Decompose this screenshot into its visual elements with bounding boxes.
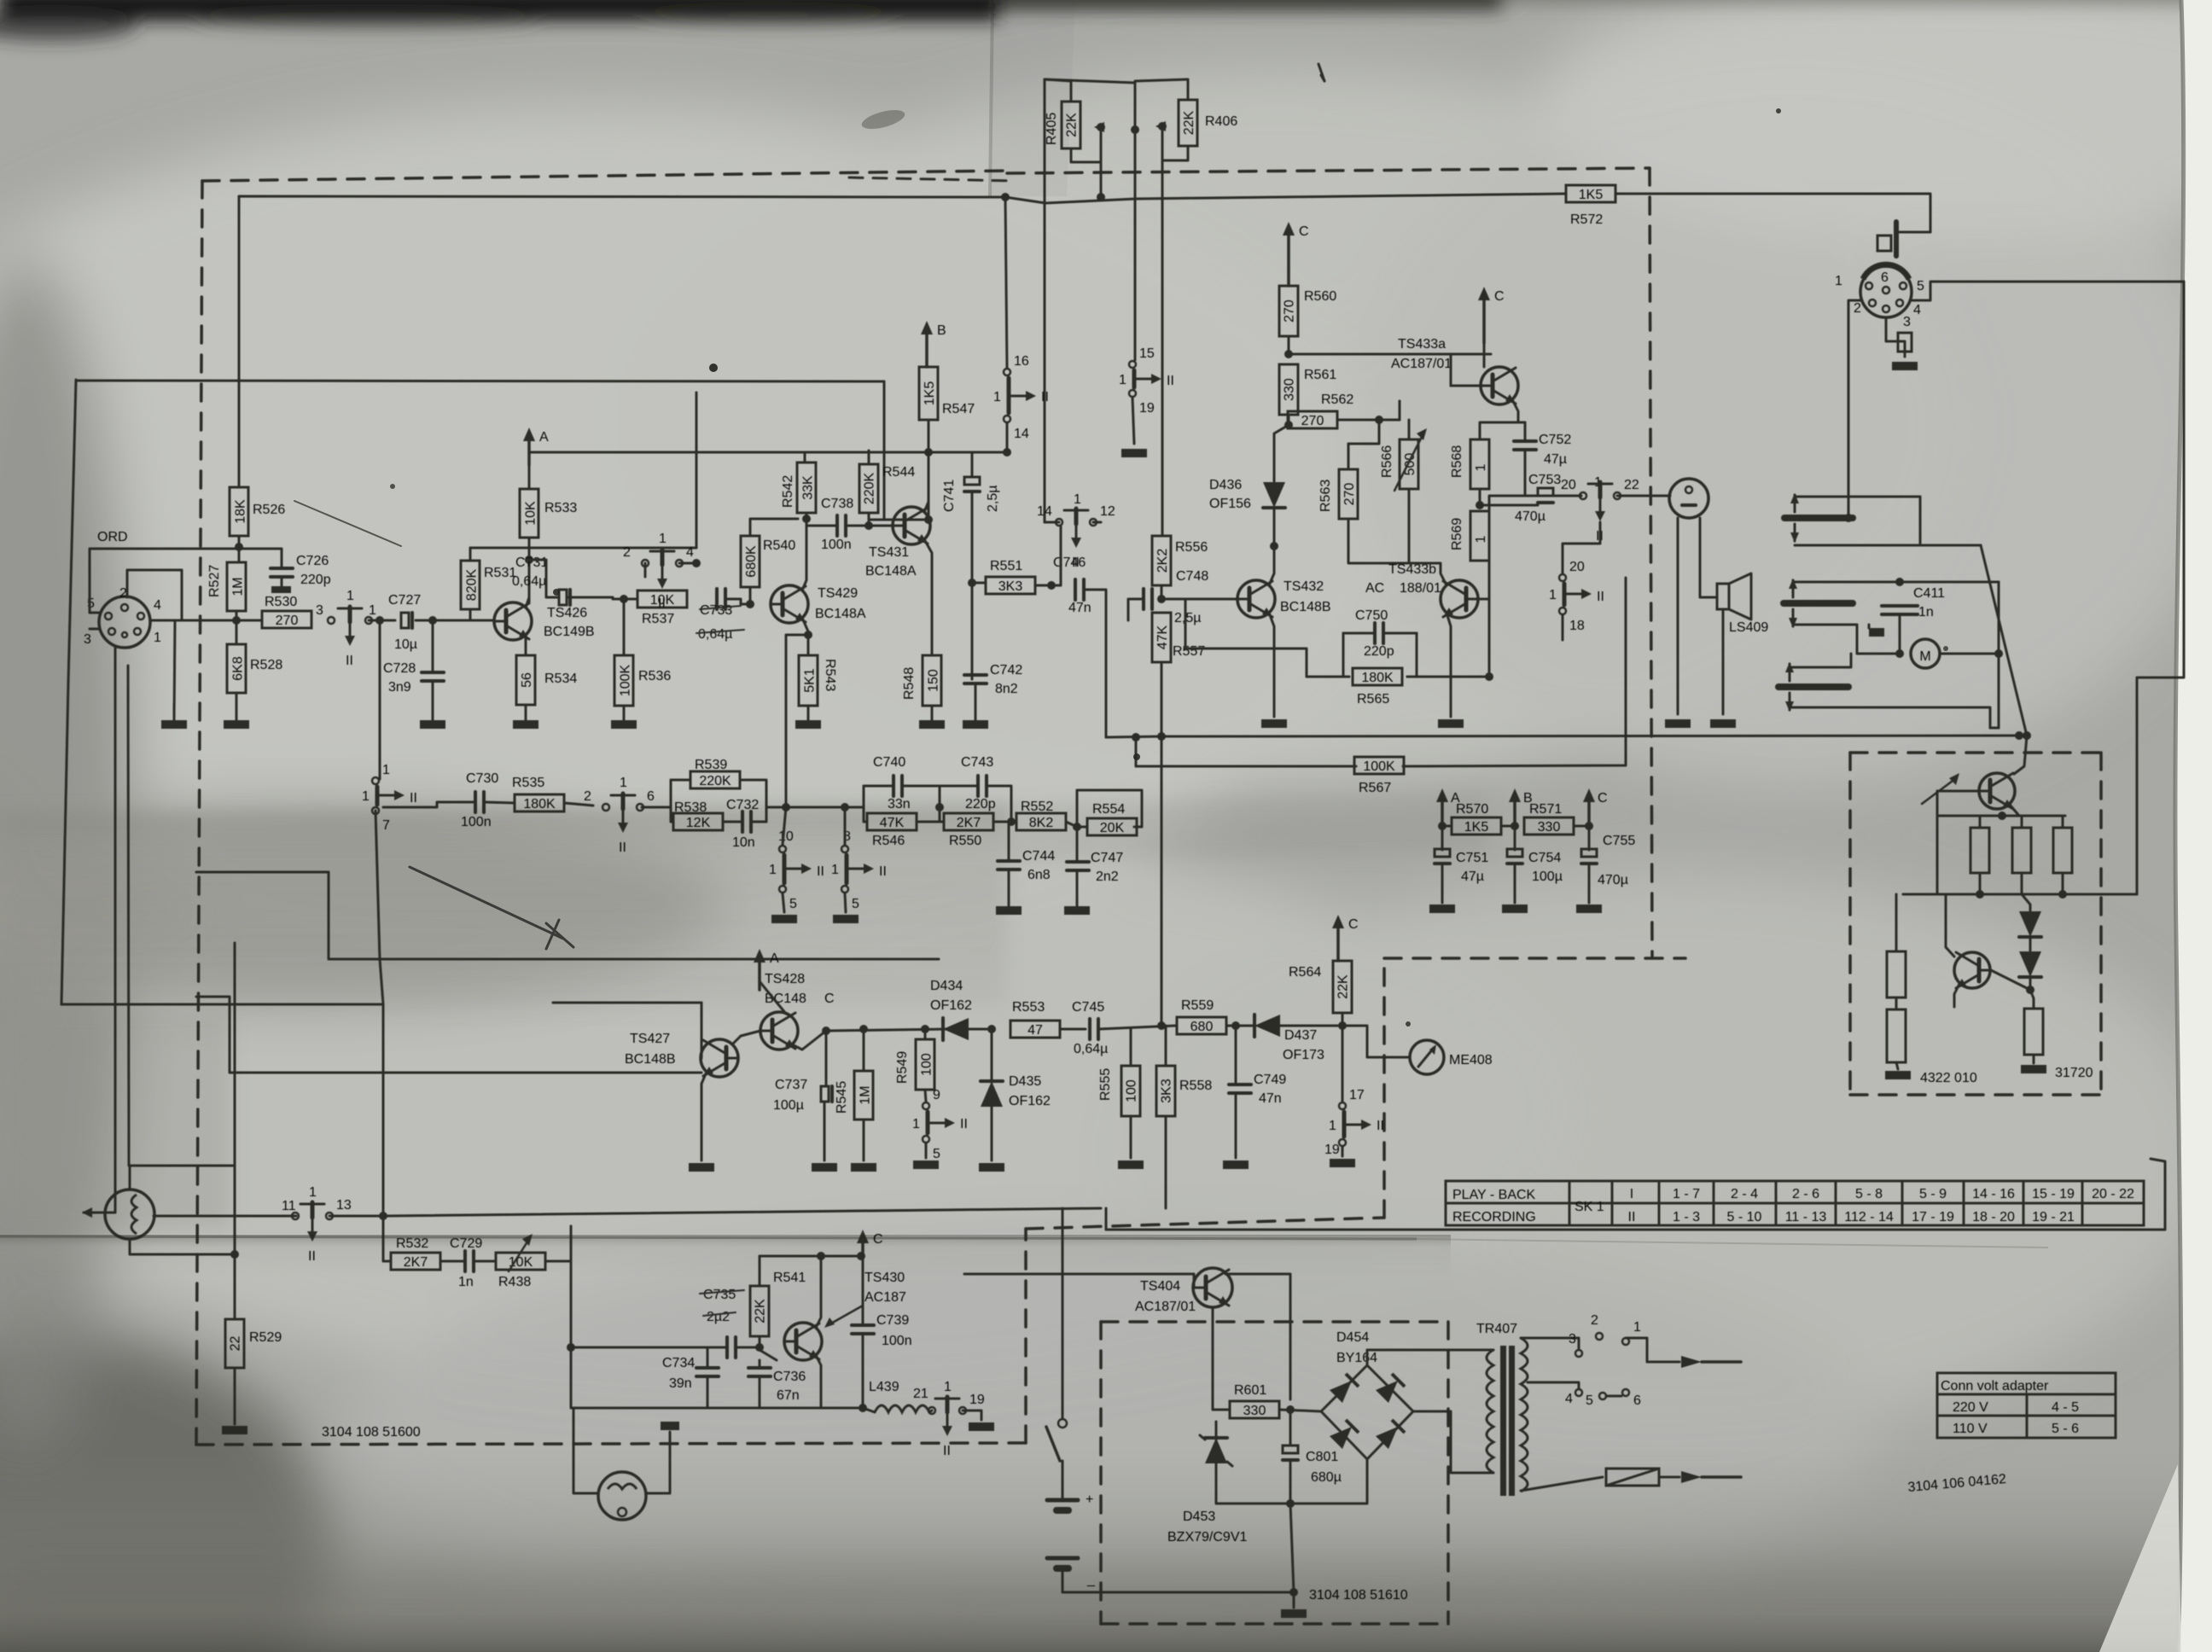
resistor R544	[859, 464, 878, 513]
svg-text:1n: 1n	[458, 1275, 474, 1289]
handwritten mark top	[1318, 64, 1324, 81]
supply arrow A rail	[1441, 799, 1444, 823]
svg-text:TS426: TS426	[547, 606, 587, 620]
resistor R561	[1279, 364, 1298, 415]
svg-text:1n: 1n	[1918, 605, 1934, 619]
svg-text:C745: C745	[1072, 1000, 1104, 1015]
wire bridge top to TR	[1367, 1350, 1485, 1365]
resistor R547	[919, 367, 938, 420]
svg-text:11: 11	[282, 1199, 296, 1213]
svg-text:470µ: 470µ	[1515, 509, 1545, 524]
transistor TS429	[771, 585, 808, 623]
switch contact 17-1-19b	[1339, 1102, 1346, 1109]
wire C739	[862, 1256, 864, 1325]
svg-text:AC187/01: AC187/01	[1391, 357, 1452, 371]
svg-text:6: 6	[1633, 1393, 1641, 1408]
wire R536 ground	[623, 706, 626, 720]
wire TS433a base	[1451, 385, 1481, 387]
ground under sw5	[913, 1160, 939, 1169]
svg-text:TS427: TS427	[630, 1032, 670, 1046]
wire TS429 emitter to mix	[786, 635, 808, 807]
capacitor C755	[1581, 849, 1597, 857]
wire R558 top	[1165, 1026, 1167, 1066]
svg-text:C743: C743	[961, 755, 993, 770]
svg-text:820K: 820K	[465, 568, 480, 601]
wire R406 loop	[1135, 79, 1188, 100]
wire osc in from bus	[571, 1347, 701, 1349]
node top bus junction	[1001, 193, 1010, 201]
wire C747	[1076, 827, 1079, 862]
svg-text:R563: R563	[1318, 480, 1333, 512]
svg-text:R570: R570	[1456, 802, 1488, 817]
capacitor C744	[998, 859, 1020, 863]
svg-text:14 - 16: 14 - 16	[1972, 1187, 2015, 1201]
svg-text:47K: 47K	[1155, 625, 1170, 649]
svg-text:C747: C747	[1091, 851, 1123, 865]
svg-text:II: II	[1628, 1210, 1636, 1224]
svg-text:3: 3	[84, 632, 91, 647]
svg-text:2K7: 2K7	[957, 816, 981, 830]
resistor R570	[1452, 817, 1501, 835]
svg-text:R557: R557	[1173, 644, 1205, 659]
wire osc bottom bus	[707, 1407, 863, 1410]
svg-text:BC148A: BC148A	[865, 564, 917, 579]
wire R564 bottom	[1342, 1013, 1344, 1026]
resistor R564	[1333, 961, 1352, 1013]
wire res stubs	[1979, 816, 1982, 828]
resistor R543	[799, 655, 818, 706]
svg-text:47µ: 47µ	[1461, 870, 1484, 884]
svg-text:R559: R559	[1181, 998, 1214, 1013]
svg-text:C751: C751	[1456, 851, 1488, 865]
svg-text:15 - 19: 15 - 19	[2032, 1187, 2075, 1201]
svg-text:2n2: 2n2	[1096, 870, 1119, 884]
capacitor C731	[559, 590, 567, 605]
wire dashed power box left	[1099, 1322, 1103, 1624]
svg-text:II: II	[658, 596, 666, 611]
motor M	[1911, 639, 1940, 668]
ground under D435	[979, 1163, 1004, 1172]
resistor R536	[614, 655, 633, 706]
wire dashed border step right	[1026, 1218, 1384, 1229]
ground under ORD	[161, 720, 187, 729]
wire dashed main board border left	[196, 181, 202, 1445]
ground under C754	[1502, 905, 1528, 913]
wire frame bottom drop	[382, 1004, 385, 1216]
svg-text:R566: R566	[1380, 445, 1394, 478]
wire TS427 emitter gnd	[701, 1072, 707, 1160]
ground under R534	[513, 720, 538, 729]
wire TS433a emitter to C752	[1518, 422, 1525, 424]
wire head2 top rail	[1793, 581, 1999, 584]
ground under C747	[1064, 906, 1090, 915]
wire TS432 collector up	[1269, 546, 1274, 585]
wire R552 left	[1011, 821, 1016, 823]
svg-text:R550: R550	[949, 834, 981, 848]
meter ME408	[1410, 1040, 1444, 1074]
wire R561 bottom	[1288, 415, 1290, 425]
wire r6	[2030, 990, 2034, 1009]
wire R601 wires	[1213, 1399, 1230, 1410]
svg-text:R527: R527	[207, 565, 222, 597]
svg-text:100: 100	[1125, 1079, 1139, 1102]
svg-text:II: II	[817, 864, 824, 879]
svg-text:C744: C744	[1022, 849, 1055, 864]
wire x1361 drop from bus	[1161, 736, 1163, 1026]
wire R566 wires	[1408, 420, 1411, 439]
resistor R535	[515, 794, 564, 811]
wire vertical drop x1290	[1100, 127, 1103, 197]
svg-text:M: M	[1919, 649, 1930, 664]
resistor R551	[986, 577, 1035, 594]
svg-text:R548: R548	[902, 667, 917, 700]
head rec/play mid	[1784, 600, 1853, 607]
resistor R406	[1179, 100, 1197, 146]
svg-text:A: A	[539, 430, 549, 445]
wire sw10 gnd	[783, 893, 784, 912]
svg-text:C727: C727	[388, 593, 421, 608]
svg-text:TS429: TS429	[818, 586, 858, 601]
svg-text:22K: 22K	[1182, 110, 1196, 135]
wire sw15 up	[1134, 350, 1137, 360]
node motor bus	[2015, 731, 2023, 740]
svg-text:C730: C730	[466, 771, 498, 786]
svg-text:TS433a: TS433a	[1398, 337, 1446, 352]
wire C801	[1289, 1410, 1292, 1445]
wire C730 left	[383, 802, 475, 807]
ground under C744	[996, 906, 1022, 915]
resistor R601	[1230, 1401, 1279, 1418]
wire TS433b collector gnd	[1447, 613, 1451, 717]
wire bus y862	[1106, 736, 2019, 737]
wire sw5 gnd	[925, 1143, 928, 1158]
resistor motor box r3	[2053, 828, 2072, 873]
wire R533 to collector	[528, 538, 531, 602]
wire C742 gnd	[975, 683, 977, 720]
svg-text:100: 100	[920, 1053, 934, 1076]
svg-text:II: II	[879, 864, 887, 879]
resistor R526	[230, 487, 248, 536]
wire bus y898 R567	[1136, 765, 1356, 768]
svg-text:R535: R535	[512, 776, 544, 790]
wire R526 to R527	[238, 536, 241, 562]
ground under R545	[851, 1163, 876, 1172]
svg-text:1 - 7: 1 - 7	[1673, 1187, 1700, 1201]
svg-text:22K: 22K	[754, 1299, 768, 1323]
svg-text:5: 5	[789, 897, 797, 911]
svg-text:5 - 9: 5 - 9	[1919, 1187, 1947, 1201]
svg-text:C411: C411	[1913, 586, 1945, 601]
ground under DIN	[1892, 362, 1918, 370]
resistor R552	[1016, 813, 1066, 830]
wire TS431 E-R547 join	[869, 420, 928, 526]
svg-text:5 - 6: 5 - 6	[2052, 1422, 2079, 1436]
svg-text:5 - 10: 5 - 10	[1727, 1210, 1762, 1224]
wire Q2 links	[1946, 894, 1954, 957]
svg-text:R552: R552	[1021, 800, 1053, 814]
svg-text:R526: R526	[253, 503, 285, 517]
wire R562 left	[1288, 420, 1289, 425]
ground under C755	[1576, 905, 1602, 913]
svg-text:6n8: 6n8	[1027, 868, 1051, 882]
wire left frame vertical	[61, 380, 76, 1004]
svg-text:5: 5	[933, 1147, 940, 1161]
capacitor C726	[271, 567, 293, 570]
capacitor C753	[1538, 488, 1553, 496]
svg-text:R601: R601	[1234, 1383, 1266, 1398]
ground under C749	[1223, 1160, 1249, 1169]
wire C801 to bottom bus	[1290, 1504, 1294, 1592]
svg-text:C735: C735	[703, 1288, 736, 1302]
capacitor C738	[835, 515, 839, 536]
wire R565 right up	[1488, 599, 1491, 677]
svg-text:TR407: TR407	[1476, 1322, 1517, 1336]
wire speaker gnd	[1722, 609, 1725, 714]
supply arrow C right	[1482, 297, 1486, 343]
wire C745 right	[1098, 1026, 1175, 1029]
svg-text:22: 22	[229, 1336, 243, 1352]
wire C753 right	[1553, 495, 1581, 497]
ground motor box right	[2021, 1065, 2046, 1073]
ground under R536	[611, 720, 637, 729]
svg-text:TS404: TS404	[1140, 1279, 1180, 1294]
ground under R543	[795, 720, 821, 729]
supply arrow B	[925, 331, 928, 367]
wire switch up	[1062, 1208, 1064, 1419]
resistor R550	[944, 813, 993, 830]
wire R560-R561 tap	[1289, 353, 1491, 356]
svg-text:SK 1: SK 1	[1575, 1200, 1604, 1214]
transistor TS432	[1237, 580, 1275, 618]
wire R556 to C748 node	[1161, 585, 1163, 599]
svg-text:D454: D454	[1336, 1330, 1369, 1345]
wire R527 to node	[236, 611, 238, 620]
svg-text:3: 3	[1569, 1332, 1576, 1347]
head rec/play top	[1784, 515, 1853, 521]
wire R557 bottom	[1161, 662, 1163, 736]
svg-text:220 V: 220 V	[1953, 1400, 1988, 1415]
svg-text:6: 6	[647, 789, 655, 804]
svg-text:220p: 220p	[300, 573, 331, 587]
wire R565 bus	[1307, 676, 1343, 678]
wire C741	[928, 452, 972, 477]
wire dashed main board border top	[202, 171, 1007, 181]
supply arrow B rail	[1513, 799, 1516, 823]
capacitor C748	[1142, 589, 1145, 609]
svg-text:15: 15	[1139, 346, 1155, 361]
wire head2 right drop	[1998, 582, 2000, 728]
resistor R534	[516, 655, 535, 705]
ground under C751	[1429, 905, 1455, 913]
svg-text:AC187/01: AC187/01	[1135, 1300, 1196, 1314]
wire motor box entry	[2014, 736, 2027, 774]
wire sw1412 down	[1060, 526, 1062, 585]
bridge rectifier D454	[1321, 1365, 1413, 1459]
svg-text:680: 680	[1190, 1020, 1214, 1034]
wire R405 outer loop	[1045, 79, 1135, 130]
transistor TS431	[893, 507, 930, 544]
svg-text:1: 1	[993, 390, 1001, 404]
wire head3 bottom rail	[1790, 707, 1990, 728]
resistor R538	[673, 813, 723, 830]
microphone symbol	[105, 1190, 154, 1239]
svg-text:19: 19	[1139, 401, 1155, 416]
svg-text:OF162: OF162	[930, 998, 972, 1013]
wire osc top bus	[760, 1255, 861, 1258]
wire R558 bottom	[1165, 1116, 1167, 1208]
resistor R529	[225, 1319, 244, 1368]
transformer TR407 primary	[1487, 1350, 1493, 1473]
transistor TS427	[701, 1039, 738, 1077]
wire R539 loop	[671, 780, 690, 807]
svg-text:0,64µ: 0,64µ	[1074, 1042, 1108, 1056]
resistor R533	[520, 489, 538, 538]
wire dashed main board border top right	[1007, 168, 1650, 173]
switch contact 9-1-5	[923, 1102, 929, 1109]
wire fuse right	[1659, 1476, 1679, 1479]
wire C749	[1235, 1026, 1237, 1085]
svg-text:BY164: BY164	[1336, 1351, 1377, 1365]
connector ORD DIN socket	[99, 596, 150, 648]
svg-text:12K: 12K	[686, 816, 711, 830]
resistor R558	[1156, 1066, 1175, 1116]
wire top bus sag over fold	[1005, 194, 1566, 203]
wire R571 right	[1575, 825, 1589, 828]
wire TS432 emitter gnd	[1269, 613, 1274, 717]
svg-text:1K5: 1K5	[1464, 820, 1489, 835]
capacitor C752	[1514, 439, 1536, 443]
wire TS429 emitter	[802, 618, 808, 655]
svg-text:TS431: TS431	[869, 545, 909, 560]
wire TS426 collector up	[526, 560, 529, 608]
wire D437 right	[1280, 1025, 1342, 1027]
wire R541	[759, 1256, 761, 1286]
wire sw to R539 block	[642, 806, 671, 809]
svg-text:II: II	[410, 791, 417, 806]
wire Q1 emitter	[2010, 805, 2019, 816]
capacitor C742	[964, 673, 987, 677]
transformer TR407 core	[1500, 1346, 1506, 1496]
svg-text:C: C	[1299, 224, 1309, 239]
svg-text:6: 6	[1881, 270, 1889, 285]
wire R568 bottom	[1479, 489, 1481, 505]
svg-text:OF173: OF173	[1283, 1048, 1324, 1062]
svg-text:2: 2	[584, 789, 591, 804]
ground under speaker	[1710, 719, 1736, 728]
ground power supply	[1281, 1609, 1307, 1618]
svg-text:A: A	[770, 951, 779, 966]
wire frame bottom horizontal	[61, 1003, 383, 1006]
wire dashed power box top	[1101, 1320, 1448, 1323]
svg-text:R556: R556	[1175, 540, 1208, 555]
wire sw8 gnd	[845, 893, 846, 912]
svg-text:270: 270	[1301, 414, 1324, 428]
svg-text:TS428: TS428	[765, 972, 805, 986]
wire C737 gnd	[824, 1102, 826, 1160]
svg-text:2: 2	[1854, 301, 1861, 316]
svg-text:150: 150	[927, 669, 941, 692]
svg-text:C732: C732	[726, 798, 759, 812]
svg-text:BC148B: BC148B	[625, 1052, 676, 1067]
ground motor box left	[1885, 1071, 1911, 1079]
wire C736	[759, 1360, 761, 1368]
wire bus 898 left end	[1135, 737, 1138, 766]
svg-text:1: 1	[1549, 588, 1557, 602]
svg-text:20: 20	[1561, 478, 1576, 492]
svg-text:1: 1	[1329, 1119, 1336, 1133]
svg-text:R536: R536	[638, 669, 671, 683]
resistor R569	[1470, 511, 1489, 561]
diode D435	[981, 1081, 1003, 1107]
svg-text:C749: C749	[1254, 1073, 1286, 1087]
wire battery minus	[1062, 1568, 1294, 1592]
wire R552 right	[1066, 822, 1087, 827]
wire emitter node down	[825, 1031, 828, 1086]
wire R542 bottom	[806, 513, 808, 519]
svg-text:56: 56	[520, 672, 534, 688]
svg-text:+: +	[1086, 1492, 1093, 1507]
svg-text:1K5: 1K5	[1579, 188, 1604, 202]
supply arrow A TS426	[527, 438, 531, 465]
svg-text:R529: R529	[249, 1330, 282, 1345]
svg-text:OF156: OF156	[1209, 497, 1251, 511]
ground stub head2	[1869, 628, 1884, 637]
svg-text:C754: C754	[1528, 851, 1561, 865]
resistor R549	[916, 1039, 934, 1090]
svg-text:22K: 22K	[1065, 113, 1080, 137]
wire R438 to osc	[571, 1226, 708, 1408]
svg-text:R558: R558	[1179, 1079, 1212, 1093]
svg-text:II: II	[308, 1249, 316, 1264]
resistor R540	[741, 536, 760, 587]
wire C741 top bus	[869, 452, 928, 464]
wire C735	[701, 1347, 727, 1349]
wire R551 feed	[972, 582, 986, 585]
wire motor feed drop	[2066, 678, 2137, 894]
svg-text:R564: R564	[1289, 965, 1321, 980]
svg-text:D453: D453	[1183, 1509, 1215, 1524]
svg-text:II: II	[1072, 556, 1080, 570]
svg-text:100n: 100n	[821, 538, 852, 552]
svg-text:100n: 100n	[882, 1334, 912, 1348]
wire TS433a collector	[1483, 343, 1486, 367]
svg-text:19: 19	[1324, 1143, 1340, 1157]
wire erase head right	[646, 1432, 670, 1493]
svg-text:1: 1	[1474, 535, 1488, 543]
svg-text:R549: R549	[895, 1051, 910, 1084]
wire dashed fold double segment	[849, 177, 1016, 181]
wire TS426 emitter down	[525, 635, 527, 655]
svg-text:C734: C734	[662, 1356, 695, 1370]
svg-text:D436: D436	[1209, 478, 1242, 492]
svg-text:C736: C736	[773, 1370, 806, 1384]
wire sw17 up	[1342, 1026, 1344, 1102]
wire C746 right	[1084, 590, 1106, 737]
node R405 junctions	[1097, 123, 1105, 131]
svg-text:1: 1	[769, 863, 777, 877]
resistor R563	[1339, 469, 1358, 519]
resistor R554	[1087, 818, 1137, 835]
svg-text:20 - 22: 20 - 22	[2092, 1187, 2134, 1201]
svg-text:D437: D437	[1284, 1028, 1317, 1043]
svg-text:7: 7	[382, 818, 390, 833]
svg-text:R406: R406	[1205, 114, 1237, 129]
svg-text:II: II	[1041, 390, 1049, 404]
svg-text:R540: R540	[763, 538, 795, 553]
wire R540 bottom	[749, 587, 752, 604]
svg-text:0,64µ: 0,64µ	[698, 627, 732, 642]
svg-text:C737: C737	[775, 1078, 807, 1092]
